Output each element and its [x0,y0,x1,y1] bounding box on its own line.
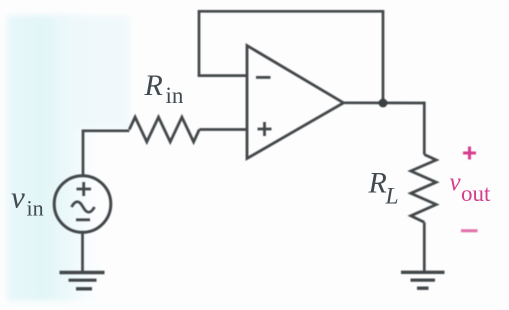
wire: feedback right vertical [382,10,385,103]
source Vin circle [54,176,111,233]
svg-text:R: R [144,69,163,102]
source sine symbol [72,202,95,213]
wire: RL to ground [423,222,426,271]
plus sign (magenta, output polarity) [463,147,476,160]
wire: output [344,101,425,104]
svg-text:out: out [461,181,491,206]
svg-text:v: v [11,180,25,215]
ground (left) [60,271,105,274]
svg-text:R: R [368,167,387,200]
svg-text:in: in [27,195,44,220]
wire: down to load [423,102,426,155]
source minus sign [76,218,90,221]
resistor RL zigzag [411,155,436,223]
node: output junction [379,99,388,108]
left blue highlight band [7,15,107,301]
ground (right) [401,271,445,274]
svg-text:L: L [385,183,399,209]
svg-text:v: v [450,169,462,196]
op-amp U1 [247,46,344,159]
op-amp minus sign [256,76,271,79]
wire: Rin to op-amp plus input [199,128,247,131]
minus sign (magenta, output polarity) [461,229,478,232]
svg-text:in: in [166,83,184,108]
op-amp plus sign [258,122,272,136]
wire: feedback left vertical [198,10,201,76]
wire: source bottom to ground [81,233,84,272]
source plus sign [77,182,92,196]
wire: inverting input [198,74,247,77]
wire: feedback top [199,10,383,13]
wire: source top to input corner [83,130,129,176]
resistor Rin zigzag [129,117,199,142]
